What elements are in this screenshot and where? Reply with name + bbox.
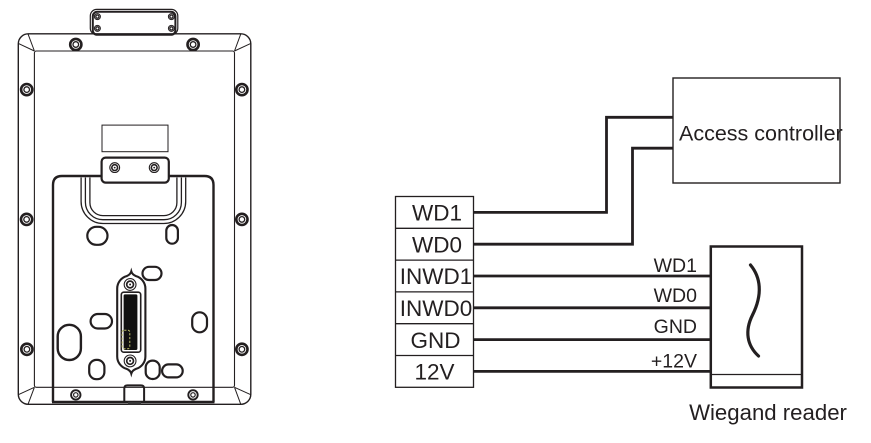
connector socket outline — [121, 292, 140, 352]
frame screw right-mid — [236, 214, 247, 225]
hole below arch right — [166, 225, 178, 244]
wiegand reader bottom strip — [711, 374, 802, 376]
svg-text:12V: 12V — [414, 360, 454, 385]
bracket screw d — [168, 25, 174, 31]
connector screw top — [124, 279, 136, 291]
terminal dividers — [396, 228, 474, 355]
device rear view: top mounting bracket — [90, 9, 178, 34]
connector socket dark insert — [124, 294, 138, 350]
svg-text:INWD0: INWD0 — [400, 296, 473, 321]
wire GND to reader — [474, 338, 711, 341]
frame screw left-lower — [21, 344, 32, 355]
hole left large oval — [58, 325, 81, 360]
label plate rectangle — [102, 125, 168, 152]
svg-text:WD1: WD1 — [654, 255, 697, 277]
bracket screw c — [94, 25, 100, 31]
bottom cable tab — [124, 385, 144, 401]
bracket screw b — [168, 14, 174, 20]
hole bottom pair right — [162, 364, 183, 377]
frame screw top-left — [70, 39, 81, 50]
hole lower-left — [89, 360, 104, 379]
wiegand reader box — [711, 247, 802, 388]
frame screw right-upper — [236, 84, 247, 95]
panel bottom edge — [52, 401, 215, 403]
access controller box — [673, 78, 840, 183]
panel screw bottom-right — [188, 390, 197, 399]
connector pin1 dashed marker — [122, 330, 130, 349]
wire WD0 to controller — [474, 148, 674, 244]
svg-text:Access controller: Access controller — [679, 122, 843, 146]
mount bracket screw right — [149, 163, 159, 173]
svg-text:+12V: +12V — [651, 350, 697, 372]
hole bottom pair left — [146, 361, 160, 379]
wire INWD1 to reader — [474, 275, 711, 278]
handle arch middle line — [85, 178, 181, 220]
device body outer outline — [18, 34, 251, 405]
svg-text:Wiegand reader: Wiegand reader — [689, 400, 847, 425]
svg-text:INWD1: INWD1 — [400, 264, 473, 289]
terminal block outline — [396, 197, 474, 388]
wiegand reader squiggle — [748, 265, 759, 356]
connector capsule — [117, 271, 145, 373]
handle arch inner line — [90, 178, 177, 216]
hole left of connector — [91, 314, 112, 329]
rear panel recess — [53, 176, 214, 402]
svg-text:GND: GND — [654, 316, 697, 338]
wire WD1 to controller — [474, 117, 674, 212]
frame screw left-mid — [21, 214, 32, 225]
panel screw bottom-left — [71, 390, 80, 399]
frame screw right-lower — [236, 344, 247, 355]
handle arch outer line — [81, 178, 186, 224]
wire 12V to reader — [474, 370, 711, 373]
frame screw top-right — [188, 39, 199, 50]
svg-text:WD0: WD0 — [412, 232, 462, 257]
bracket screw a — [94, 14, 100, 20]
hole right vertical oval — [192, 312, 207, 332]
wall-mount bracket on panel — [102, 158, 169, 183]
hole upper-right of connector — [143, 267, 162, 280]
svg-text:WD1: WD1 — [412, 201, 462, 226]
bevel corner mitre lines — [19, 34, 251, 404]
hole below arch left — [87, 227, 107, 245]
device inner bevel face — [34, 51, 234, 387]
frame screw left-upper — [21, 84, 32, 95]
wire INWD0 to reader — [474, 306, 711, 309]
cable tab dark strip — [128, 402, 141, 404]
mount bracket screw left — [110, 163, 120, 173]
svg-text:GND: GND — [411, 328, 461, 353]
connector screw bottom — [124, 355, 136, 367]
svg-text:WD0: WD0 — [654, 285, 697, 307]
